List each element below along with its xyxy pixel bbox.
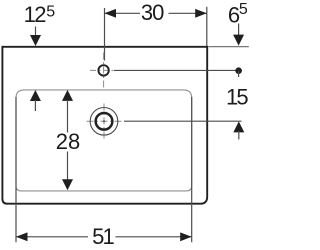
svg-text:30: 30 xyxy=(141,0,164,25)
svg-text:28: 28 xyxy=(56,129,80,154)
svg-text:51: 51 xyxy=(92,224,114,249)
svg-text:5: 5 xyxy=(46,3,55,20)
svg-text:5: 5 xyxy=(239,1,248,18)
svg-text:12: 12 xyxy=(24,2,47,27)
svg-text:15: 15 xyxy=(226,85,248,110)
